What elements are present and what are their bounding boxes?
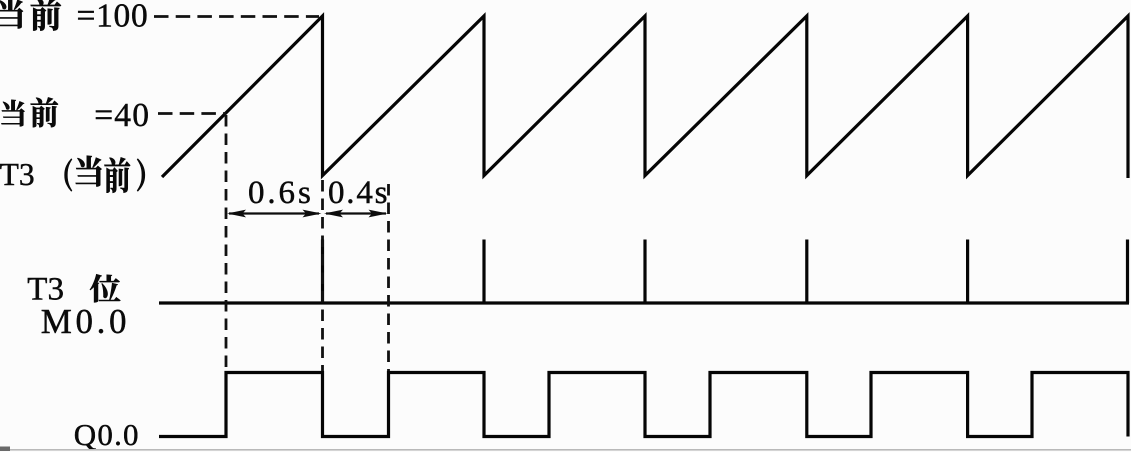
svg-text:=100: =100	[77, 0, 149, 34]
wire dashed vertical at t=1.0s	[387, 184, 390, 371]
svg-text:M0.0: M0.0	[41, 302, 130, 341]
wire dashed vertical at t=0.6s	[321, 180, 324, 371]
svg-text:Q0.0: Q0.0	[74, 417, 140, 452]
wire dashed level =100	[154, 15, 319, 18]
wire dashed level =40	[158, 112, 226, 115]
scan artifact bottom edge	[0, 449, 1131, 451]
node T3-bit pulse spikes	[321, 240, 324, 304]
wire dashed vertical at t=0	[225, 115, 228, 371]
svg-text:0.6s: 0.6s	[248, 175, 314, 211]
label dangqian row2	[1, 97, 58, 127]
svg-text:0.4s: 0.4s	[328, 175, 389, 211]
wire Q0.0 square waveform	[159, 373, 1128, 437]
label dangqian row1	[0, 0, 61, 31]
wire T3-bit baseline M0.0	[159, 301, 1129, 304]
svg-text:T3: T3	[0, 157, 35, 192]
wire sawtooth T3 current-value waveform	[162, 16, 1128, 178]
svg-text:=40: =40	[94, 97, 150, 134]
node 0.6s dimension arrow	[227, 210, 388, 218]
